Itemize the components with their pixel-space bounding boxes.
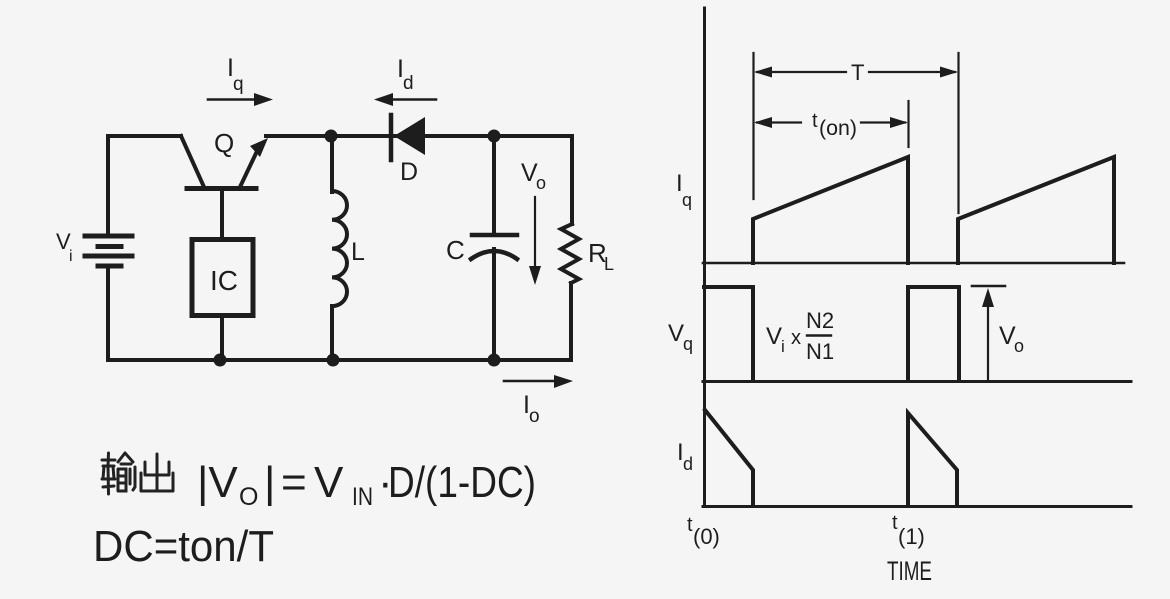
wire battery bottom xyxy=(106,268,110,360)
svg-text:(on): (on) xyxy=(819,117,857,140)
svg-text:|V: |V xyxy=(197,458,238,507)
Id waveform pulse 1 xyxy=(705,410,753,506)
dimension ton left arrowhead xyxy=(754,117,772,128)
svg-text:o: o xyxy=(536,173,546,193)
dimension tick T right xyxy=(957,53,959,213)
dimension ton arrow line xyxy=(757,121,905,123)
transistor Q1 base bar xyxy=(187,186,256,191)
wire capacitor top xyxy=(492,136,496,233)
Vo tick mark xyxy=(972,285,1005,288)
Iq waveform ramp 2 xyxy=(958,157,1114,263)
dimension T right arrowhead xyxy=(940,67,958,78)
svg-text:q: q xyxy=(682,190,692,210)
transistor Q1 collector arrowhead xyxy=(250,138,268,157)
svg-text:o: o xyxy=(529,406,540,427)
svg-text:D/(1-DC): D/(1-DC) xyxy=(388,458,536,507)
IC box U1 xyxy=(192,240,253,316)
wire capacitor bottom xyxy=(492,249,496,360)
svg-text:=: = xyxy=(281,458,307,507)
dimension T arrow line xyxy=(757,71,955,73)
Vo arrow line xyxy=(987,303,989,381)
svg-text:q: q xyxy=(233,74,244,95)
capacitor C curved plate xyxy=(471,251,517,259)
transistor Q1 collector slant xyxy=(240,147,259,187)
arrow Vo line xyxy=(534,197,536,269)
current arrow Io head xyxy=(554,375,573,388)
wire battery top xyxy=(106,136,110,233)
current arrow Iq line xyxy=(208,98,257,101)
node IC bottom xyxy=(214,354,227,367)
svg-text:i: i xyxy=(69,248,73,265)
svg-text:(1): (1) xyxy=(898,524,925,549)
wire RL top xyxy=(570,136,574,224)
svg-text:d: d xyxy=(683,454,693,474)
svg-text:i: i xyxy=(781,337,785,356)
node capacitor bottom xyxy=(488,354,501,367)
fraction bar N2/N1 xyxy=(807,334,831,336)
svg-text:O: O xyxy=(239,483,258,511)
svg-text:|: | xyxy=(264,458,275,507)
svg-text:V: V xyxy=(314,458,344,507)
Id graph baseline xyxy=(703,505,1131,508)
svg-text:o: o xyxy=(1014,336,1024,356)
node inductor bottom xyxy=(327,354,340,367)
wire top rail xyxy=(266,134,572,138)
svg-text:L: L xyxy=(604,254,614,274)
svg-text:d: d xyxy=(403,73,414,94)
hanzi 出 xyxy=(141,454,173,491)
waveform vertical axis xyxy=(703,8,706,506)
svg-text:t: t xyxy=(812,110,818,132)
battery V1 plate short bottom xyxy=(98,264,121,269)
Vo arrowhead xyxy=(982,288,994,307)
Iq graph baseline xyxy=(703,262,1124,265)
svg-text:C: C xyxy=(446,235,465,265)
svg-text:IN: IN xyxy=(352,483,373,511)
battery V1 plate long bottom xyxy=(85,254,132,259)
svg-text:D: D xyxy=(400,158,418,186)
capacitor C top plate xyxy=(472,233,517,238)
svg-text:V: V xyxy=(668,320,684,347)
svg-text:q: q xyxy=(683,334,693,354)
current arrow Id head xyxy=(374,93,393,106)
Iq waveform ramp 1 xyxy=(753,157,908,263)
dimension tick ton right xyxy=(907,101,909,147)
svg-text:x: x xyxy=(791,327,801,349)
current arrow Iq head xyxy=(254,93,273,106)
diode D triangle xyxy=(394,117,425,155)
dimension ton right arrowhead xyxy=(890,117,908,128)
node at capacitor top xyxy=(488,130,501,143)
dimension tick t0 xyxy=(752,53,754,199)
hanzi 输 xyxy=(102,453,135,494)
current arrow Io line xyxy=(504,380,557,383)
Id waveform pulse 2 xyxy=(908,413,957,506)
svg-text:IC: IC xyxy=(210,265,238,296)
wire RL bottom xyxy=(569,283,573,360)
Vq pulse 2 xyxy=(908,287,959,381)
Vq pulse 1 xyxy=(704,287,753,381)
node at inductor top xyxy=(325,130,338,143)
svg-text:(0): (0) xyxy=(693,524,720,549)
svg-text:V: V xyxy=(766,323,782,350)
battery V1 plate short xyxy=(98,244,121,249)
Vq graph baseline xyxy=(703,380,1131,383)
wire inductor top xyxy=(330,136,334,192)
wire IC bottom xyxy=(220,316,224,360)
diode D cathode bar xyxy=(389,115,394,160)
svg-text:L: L xyxy=(351,238,365,266)
resistor RL zigzag xyxy=(561,224,579,283)
svg-text:TIME: TIME xyxy=(887,556,932,586)
battery V1 plate long top xyxy=(85,234,132,239)
inductor L coils xyxy=(332,191,347,306)
svg-text:T: T xyxy=(851,60,864,85)
wire emitter slant of Q xyxy=(181,136,204,187)
dimension T left arrowhead xyxy=(754,67,772,78)
arrow Vo head xyxy=(529,266,541,285)
wire base of Q down to IC xyxy=(220,190,224,238)
svg-text:N2: N2 xyxy=(806,308,834,333)
wire inductor bottom xyxy=(330,306,334,360)
svg-text:N1: N1 xyxy=(806,339,834,364)
bottom rail wire xyxy=(108,358,571,362)
current arrow Id line xyxy=(390,98,436,101)
wire top-left horizontal from battery to transistor xyxy=(108,134,181,138)
svg-text:DC=ton/T: DC=ton/T xyxy=(93,522,274,571)
svg-text:Q: Q xyxy=(214,128,234,158)
